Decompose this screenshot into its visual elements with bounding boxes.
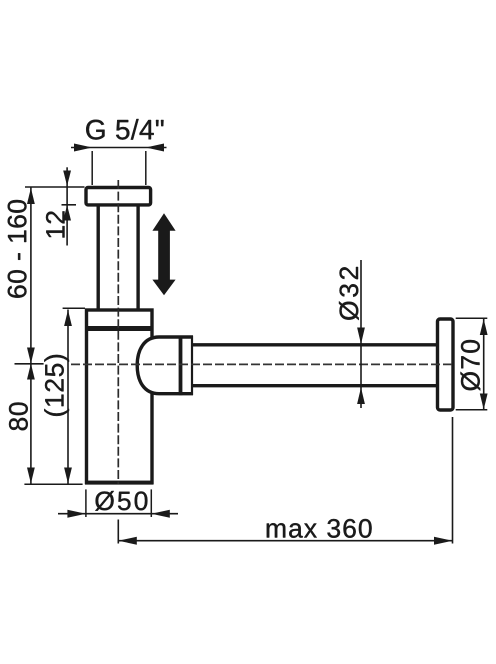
label diam70 xyxy=(461,340,481,391)
dim max360 arrow left xyxy=(118,537,137,545)
label diam32 xyxy=(339,267,359,320)
dim diam50 arrow right xyxy=(151,510,170,518)
dim max360 arrow right xyxy=(434,537,453,545)
dim G 5/4 extension right xyxy=(145,151,147,185)
label 12 xyxy=(46,211,65,237)
label G 5/4 xyxy=(86,119,163,140)
dim G 5/4 extension left xyxy=(91,151,93,185)
inlet pipe left wall xyxy=(96,206,99,310)
label max 360 xyxy=(267,519,372,538)
dim 60-160 / 80 line xyxy=(30,188,32,484)
label 60 - 160 xyxy=(8,200,27,298)
trap body xyxy=(87,310,153,483)
label 80 xyxy=(9,403,28,431)
dim diam70 line xyxy=(483,319,485,410)
dim 12 tick xyxy=(62,204,77,206)
dim max360 line xyxy=(118,540,452,542)
label (125) xyxy=(44,355,69,416)
dim diam50 extension left xyxy=(85,489,87,517)
dim diam32 arrow down xyxy=(357,328,365,345)
dim G 5/4 arrow right xyxy=(146,144,164,152)
dim 12 arrow bottom xyxy=(63,205,71,221)
label diam50 xyxy=(95,491,147,511)
dim max360 extension center xyxy=(117,520,119,544)
dim diam50 extension right xyxy=(150,489,152,517)
dim 60-160 / 80 extension at flange top xyxy=(25,186,85,188)
inlet pipe right wall xyxy=(136,206,139,310)
dim 60-160 arrow mid down xyxy=(27,348,35,364)
dim G 5/4 arrow left xyxy=(74,144,92,152)
dim diam70 arrow bottom xyxy=(480,394,488,410)
dim 60-160 / 80 extension at body bottom xyxy=(24,483,82,485)
dim diam70 arrow top xyxy=(480,319,488,335)
dim 125 arrow bottom xyxy=(64,468,72,484)
dim 80 arrow bottom xyxy=(27,468,35,484)
wall flange xyxy=(438,319,454,410)
dim diam32 arrow up xyxy=(357,388,365,405)
dim diam70 extension top xyxy=(456,317,488,319)
dim diam50 arrow left xyxy=(67,510,86,518)
dim 125 extension at collar top xyxy=(63,307,85,309)
dim G 5/4 line xyxy=(71,147,167,149)
dim max360 extension right xyxy=(452,417,454,544)
dim 12 line xyxy=(66,167,68,245)
body bottom edge xyxy=(85,481,154,485)
dim 125 arrow top xyxy=(64,310,72,326)
dim diam70 extension bottom xyxy=(456,409,488,411)
outlet nut edge xyxy=(191,336,193,395)
top flange xyxy=(86,188,151,205)
body seam ring xyxy=(85,326,154,331)
dim 80 arrow mid up xyxy=(27,364,35,380)
dim diam32 leader line xyxy=(360,260,362,408)
vertical centerline of trap body xyxy=(117,180,119,484)
outlet nut thick ring xyxy=(179,336,183,396)
horizontal centerline of outlet pipe xyxy=(71,363,454,365)
dim 60-160 arrow top xyxy=(27,188,35,204)
outlet boss dome xyxy=(137,337,193,394)
adjustability double arrow xyxy=(152,213,175,295)
centerline left tick segment xyxy=(15,363,44,365)
outlet pipe bottom wall xyxy=(193,384,436,387)
dim 125 line xyxy=(67,310,69,484)
outlet pipe top wall xyxy=(193,343,436,346)
dim 12 arrow top xyxy=(63,171,71,187)
dim diam50 line xyxy=(58,513,178,515)
